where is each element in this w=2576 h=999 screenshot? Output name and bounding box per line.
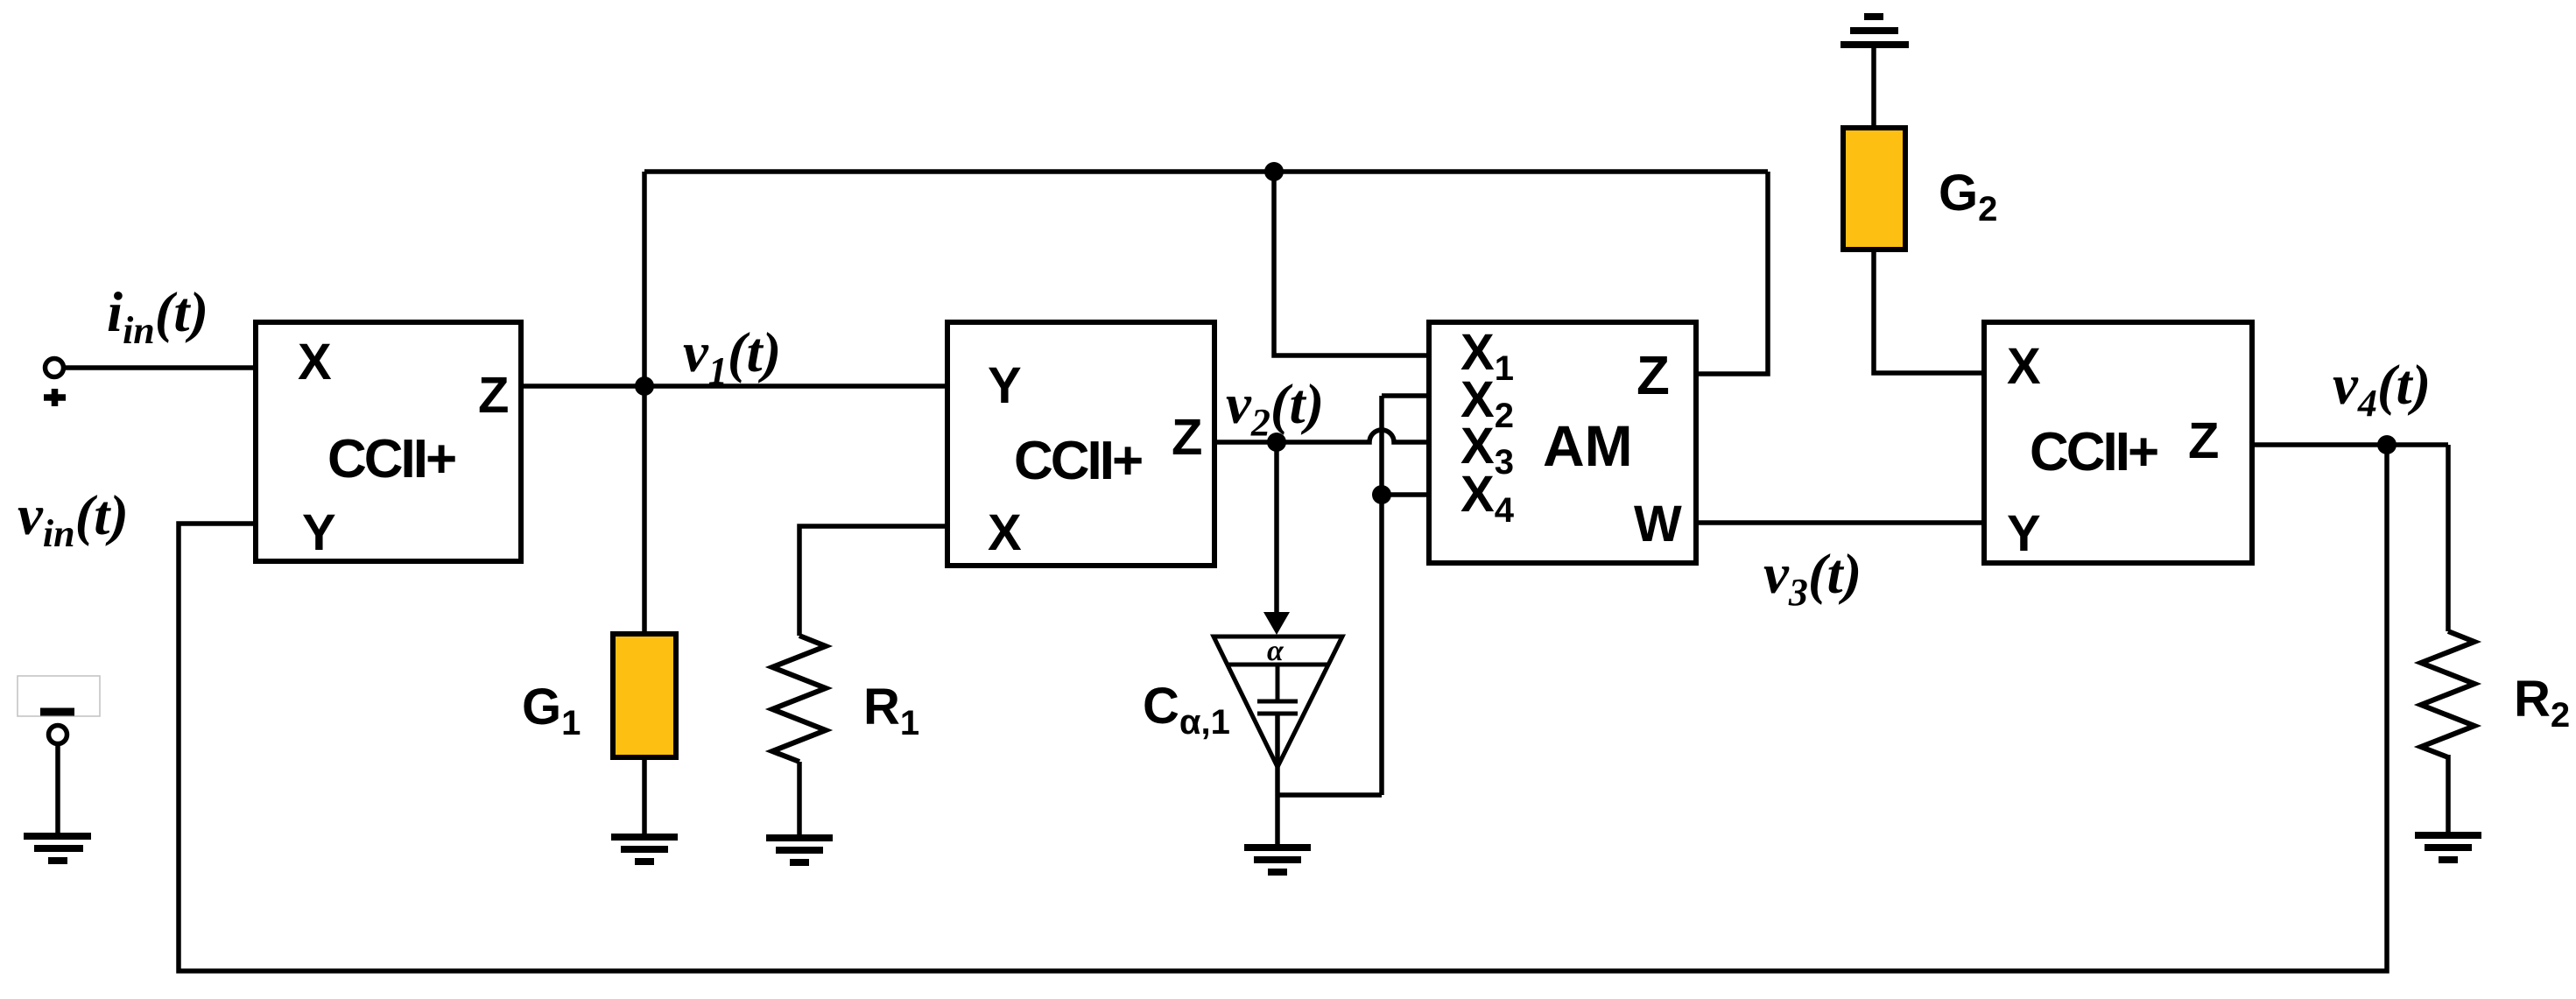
wire v4 to R2 bbox=[2446, 445, 2451, 631]
conductance G2 bbox=[1843, 128, 1905, 250]
svg-text:X: X bbox=[298, 334, 332, 390]
svg-text:α: α bbox=[1267, 635, 1284, 667]
svg-text:AM: AM bbox=[1543, 413, 1633, 478]
multiplier AM box bbox=[1429, 322, 1696, 563]
wire G2 to X3 pin bbox=[1874, 250, 1984, 373]
op-amp U2 CCII+ box bbox=[947, 322, 1214, 566]
input terminal + bbox=[44, 359, 66, 407]
ground negative terminal bbox=[24, 836, 91, 861]
negative terminal minus bar bbox=[40, 708, 74, 716]
ground R2 bbox=[2415, 835, 2481, 860]
svg-text:W: W bbox=[1634, 496, 1682, 552]
wire v2 down to capacitor bbox=[1274, 442, 1279, 615]
wire AM Z to top rail bbox=[1696, 172, 1768, 374]
wire v1 down to G1 bbox=[642, 386, 647, 637]
svg-text:v3(t): v3(t) bbox=[1763, 543, 1862, 614]
ground capacitor bbox=[1244, 848, 1311, 872]
wire v1 up to top rail bbox=[642, 172, 647, 386]
node X4 bbox=[1372, 485, 1391, 504]
negative terminal box bbox=[18, 676, 100, 716]
wire rail down to X1 pin bbox=[1274, 172, 1429, 355]
X2/X4 bus vertical bbox=[1379, 396, 1384, 795]
svg-text:CCII+: CCII+ bbox=[327, 429, 455, 489]
svg-text:X: X bbox=[2007, 338, 2041, 395]
svg-text:Z: Z bbox=[2188, 412, 2219, 469]
wire Z1 to Y2 node v1 bbox=[521, 383, 947, 389]
op-amp U3 CCII+ box bbox=[1984, 322, 2252, 563]
svg-text:Z: Z bbox=[1172, 409, 1202, 466]
fractional capacitor C_a,1 bbox=[1214, 637, 1342, 767]
node on top rail bbox=[1264, 162, 1284, 181]
wire R2 to ground bbox=[2446, 755, 2451, 835]
svg-text:iin(t): iin(t) bbox=[107, 281, 208, 352]
wire ground to G2 bbox=[1871, 46, 1876, 128]
wire input to X pin bbox=[62, 365, 256, 370]
wire bus to X4 pin bbox=[1382, 492, 1429, 497]
svg-text:Y: Y bbox=[302, 504, 336, 561]
resistor R1 bbox=[772, 636, 826, 762]
svg-text:v2(t): v2(t) bbox=[1226, 373, 1324, 444]
svg-text:Y: Y bbox=[2007, 505, 2041, 562]
resistor R2 bbox=[2421, 631, 2474, 757]
wire AM W to Y3 node v3 bbox=[1696, 520, 1984, 525]
svg-text:v1(t): v1(t) bbox=[683, 321, 781, 392]
ground G1 bbox=[611, 837, 678, 862]
ground R1 bbox=[766, 838, 833, 862]
wire X2pin to R1 bbox=[799, 526, 947, 636]
feedback wire v4 to vin bbox=[179, 445, 2387, 971]
svg-text:Z: Z bbox=[478, 367, 509, 424]
node v1 bbox=[635, 376, 654, 396]
svg-text:CCII+: CCII+ bbox=[2030, 422, 2157, 482]
svg-text:CCII+: CCII+ bbox=[1014, 431, 1142, 491]
node v2 bbox=[1267, 433, 1286, 452]
wire terminal to ground bbox=[55, 744, 60, 836]
wire Z3 to node v4 bbox=[2252, 442, 2448, 447]
wire bus to X2 pin bbox=[1382, 393, 1429, 398]
svg-text:Z: Z bbox=[1636, 346, 1670, 406]
svg-text:Y: Y bbox=[988, 357, 1022, 414]
wire Z2 node v2 with hop bbox=[1214, 430, 1429, 442]
conductance G1 bbox=[613, 634, 676, 757]
svg-text:v4(t): v4(t) bbox=[2333, 354, 2431, 425]
top feedback rail bbox=[644, 169, 1768, 174]
negative terminal circle bbox=[49, 726, 67, 744]
wire R1 to ground bbox=[797, 762, 802, 838]
wire G1 to ground bbox=[642, 757, 647, 837]
op-amp U1 CCII+ box bbox=[256, 322, 521, 561]
inverted ground above G2 bbox=[1841, 17, 1909, 45]
wire cap bottom to ground bbox=[1275, 714, 1280, 848]
node v4 bbox=[2377, 435, 2397, 454]
arrow into capacitor bbox=[1263, 612, 1290, 635]
wire cap bottom to X2/X4 bus bbox=[1277, 792, 1382, 798]
svg-text:X: X bbox=[988, 504, 1022, 561]
